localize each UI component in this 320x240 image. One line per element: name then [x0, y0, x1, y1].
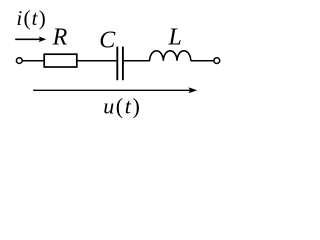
svg-text:u(t): u(t) [103, 94, 141, 119]
svg-text:L: L [168, 25, 182, 51]
svg-text:i(t): i(t) [16, 6, 47, 30]
svg-text:C: C [99, 27, 116, 53]
svg-text:R: R [52, 25, 68, 51]
